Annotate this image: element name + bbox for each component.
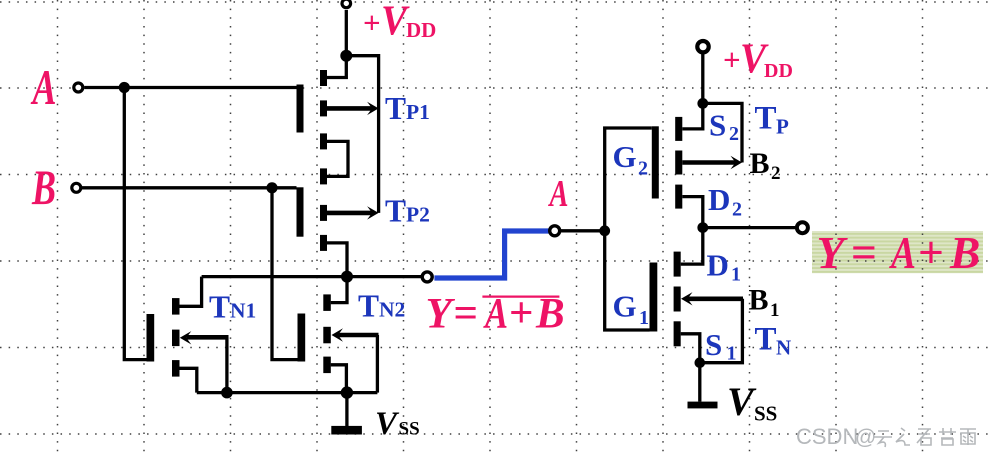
- wire input A: [84, 86, 296, 89]
- transistor TN right channel ticks: [674, 252, 681, 277]
- terminal inverter output circle: [797, 222, 808, 233]
- terminal A input circle: [74, 83, 83, 92]
- wire TN1 bulk arrow shaft: [187, 335, 229, 340]
- svg-text:A: A: [548, 173, 568, 215]
- svg-text:S: S: [709, 107, 726, 142]
- wire TN2 drain: [331, 277, 347, 303]
- wire ground lead right: [698, 363, 701, 402]
- transistor TN1 channel ticks: [172, 298, 180, 315]
- junction node A: [119, 82, 130, 93]
- wire input B: [82, 186, 297, 189]
- wire bulk rail TP1 TP2: [346, 56, 378, 213]
- transistor TP1 bulk arrowhead: [367, 102, 379, 115]
- svg-text:A: A: [889, 227, 916, 278]
- svg-text:V: V: [727, 379, 757, 424]
- svg-text:G: G: [613, 289, 637, 324]
- svg-text:P: P: [776, 115, 789, 139]
- wire VSS bottom rail: [197, 391, 378, 394]
- junction node B: [266, 182, 277, 193]
- wire TP2 drain to output node: [327, 243, 347, 277]
- svg-text:Y: Y: [426, 291, 456, 338]
- overline of A+B: [482, 296, 559, 298]
- transistor TP right bulk arrowhead B2: [731, 156, 743, 169]
- terminal inverter input circle: [550, 226, 560, 236]
- wire TP1 bulk arrow shaft: [327, 106, 373, 111]
- wire B branch to TN2 gate: [272, 188, 298, 360]
- svg-text:P2: P2: [406, 202, 430, 226]
- svg-text:=: =: [454, 290, 479, 337]
- wire VDD lead: [345, 10, 348, 56]
- svg-text:1: 1: [727, 343, 737, 365]
- watermark hanzi strokes: [874, 428, 976, 447]
- transistor TN2 gate bar: [298, 314, 306, 362]
- ground bar VSS left: [331, 426, 362, 435]
- junction inverter output node: [697, 222, 708, 233]
- junction VSS node left: [341, 386, 353, 398]
- svg-text:B: B: [31, 159, 56, 215]
- junction inverter input node: [599, 225, 610, 236]
- wire B2 bulk arrow shaft: [682, 160, 736, 165]
- svg-text:B: B: [750, 147, 770, 180]
- svg-text:D: D: [707, 248, 729, 283]
- svg-text:1: 1: [731, 264, 741, 286]
- svg-text:N2: N2: [379, 298, 405, 322]
- transistor TN2 channel ticks: [323, 294, 331, 311]
- transistor TP right channel ticks: [675, 117, 682, 141]
- svg-text:T: T: [755, 101, 777, 137]
- svg-text:S: S: [705, 327, 722, 362]
- wire TP2 bulk arrow shaft: [327, 211, 373, 216]
- wire TN1 drain: [179, 277, 201, 307]
- junction VDD node right: [697, 98, 708, 109]
- highlight box Y = A + B: [812, 231, 983, 273]
- wire blue NOR output to inverter input: [434, 231, 548, 278]
- svg-text:SS: SS: [399, 419, 420, 440]
- svg-text:DD: DD: [764, 60, 793, 82]
- svg-text:T: T: [385, 193, 406, 228]
- svg-text:G: G: [613, 139, 637, 174]
- transistor TP1 channel ticks: [320, 70, 327, 86]
- wire S1 to VSS node: [681, 334, 700, 363]
- svg-text:T: T: [385, 91, 406, 126]
- wire TN2 source: [331, 365, 347, 393]
- svg-text:=: =: [851, 227, 877, 278]
- svg-text:@: @: [855, 426, 876, 449]
- wire TN1 bulk vertical: [225, 337, 228, 392]
- wire D2 to output node: [682, 197, 703, 228]
- svg-text:+: +: [918, 227, 944, 278]
- wire A branch to TN1 gate: [124, 88, 146, 360]
- terminal VDD circle right: [697, 41, 708, 52]
- terminal B input circle: [72, 183, 81, 192]
- junction VSS node right: [695, 357, 706, 368]
- wire TN2 bulk vertical: [376, 335, 379, 393]
- wire VDD lead right: [701, 53, 704, 103]
- transistor TP1 gate bar: [297, 85, 304, 133]
- svg-text:T: T: [358, 289, 379, 324]
- svg-text:DD: DD: [406, 18, 436, 42]
- wire TN2 bulk arrow shaft: [338, 333, 379, 338]
- transistor TP2 bulk arrowhead: [367, 206, 379, 219]
- svg-text:2: 2: [638, 158, 648, 180]
- wire output rail: [202, 275, 422, 278]
- wire TN1 source: [179, 368, 196, 392]
- transistor TN1 bulk arrowhead: [180, 331, 192, 344]
- wire TP bulk rail right: [703, 103, 742, 162]
- wire inverter output: [703, 226, 797, 229]
- svg-text:P1: P1: [406, 100, 430, 124]
- wire TP1 source to VDD node: [327, 56, 346, 78]
- svg-text:+: +: [363, 5, 381, 40]
- transistor TN2 bulk arrowhead: [332, 328, 344, 341]
- svg-text:1: 1: [770, 300, 780, 321]
- svg-text:B: B: [949, 227, 980, 278]
- transistor TN right bulk arrowhead B1: [681, 292, 693, 305]
- wire inverter input: [561, 229, 605, 232]
- wire S2 to VDD node: [682, 103, 703, 128]
- transistor TP2 channel ticks: [320, 168, 327, 184]
- svg-text:T: T: [755, 322, 777, 358]
- transistor TN1 gate bar: [147, 314, 155, 362]
- svg-text:2: 2: [732, 199, 742, 221]
- svg-text:1: 1: [639, 307, 649, 329]
- svg-text:N1: N1: [230, 299, 256, 323]
- transistor TP right gate bar G2: [652, 126, 659, 198]
- terminal NOR output circle: [422, 272, 432, 282]
- svg-text:+: +: [723, 42, 741, 77]
- svg-text:N: N: [776, 336, 791, 360]
- junction TN1 bulk-source node: [221, 387, 233, 399]
- wire B1 bulk arrow shaft: [687, 296, 743, 301]
- wire gate G2 lead: [605, 128, 652, 231]
- svg-text:Y: Y: [817, 227, 849, 278]
- junction VDD node: [340, 50, 352, 62]
- wire D1 to output node: [681, 228, 703, 265]
- svg-text:SS: SS: [754, 402, 777, 426]
- wire ground lead: [345, 393, 348, 426]
- svg-text:V: V: [375, 406, 400, 442]
- wire gate G1 lead: [605, 231, 650, 330]
- svg-text:A: A: [30, 59, 56, 115]
- wire B1 bulk vertical: [700, 299, 743, 363]
- svg-text:T: T: [209, 290, 230, 325]
- transistor TN right gate bar G1: [650, 263, 658, 332]
- wire TP1 drain to TP2 source: [327, 141, 348, 176]
- ground bar VSS right: [688, 402, 718, 409]
- svg-text:2: 2: [729, 123, 739, 145]
- svg-text:CSDN: CSDN: [796, 424, 858, 449]
- transistor TP2 gate bar: [297, 187, 304, 236]
- svg-text:D: D: [708, 182, 730, 217]
- svg-text:B: B: [749, 284, 769, 317]
- svg-text:2: 2: [771, 163, 781, 184]
- terminal VDD circle left: [342, 0, 351, 8]
- junction NOR output node: [341, 271, 353, 283]
